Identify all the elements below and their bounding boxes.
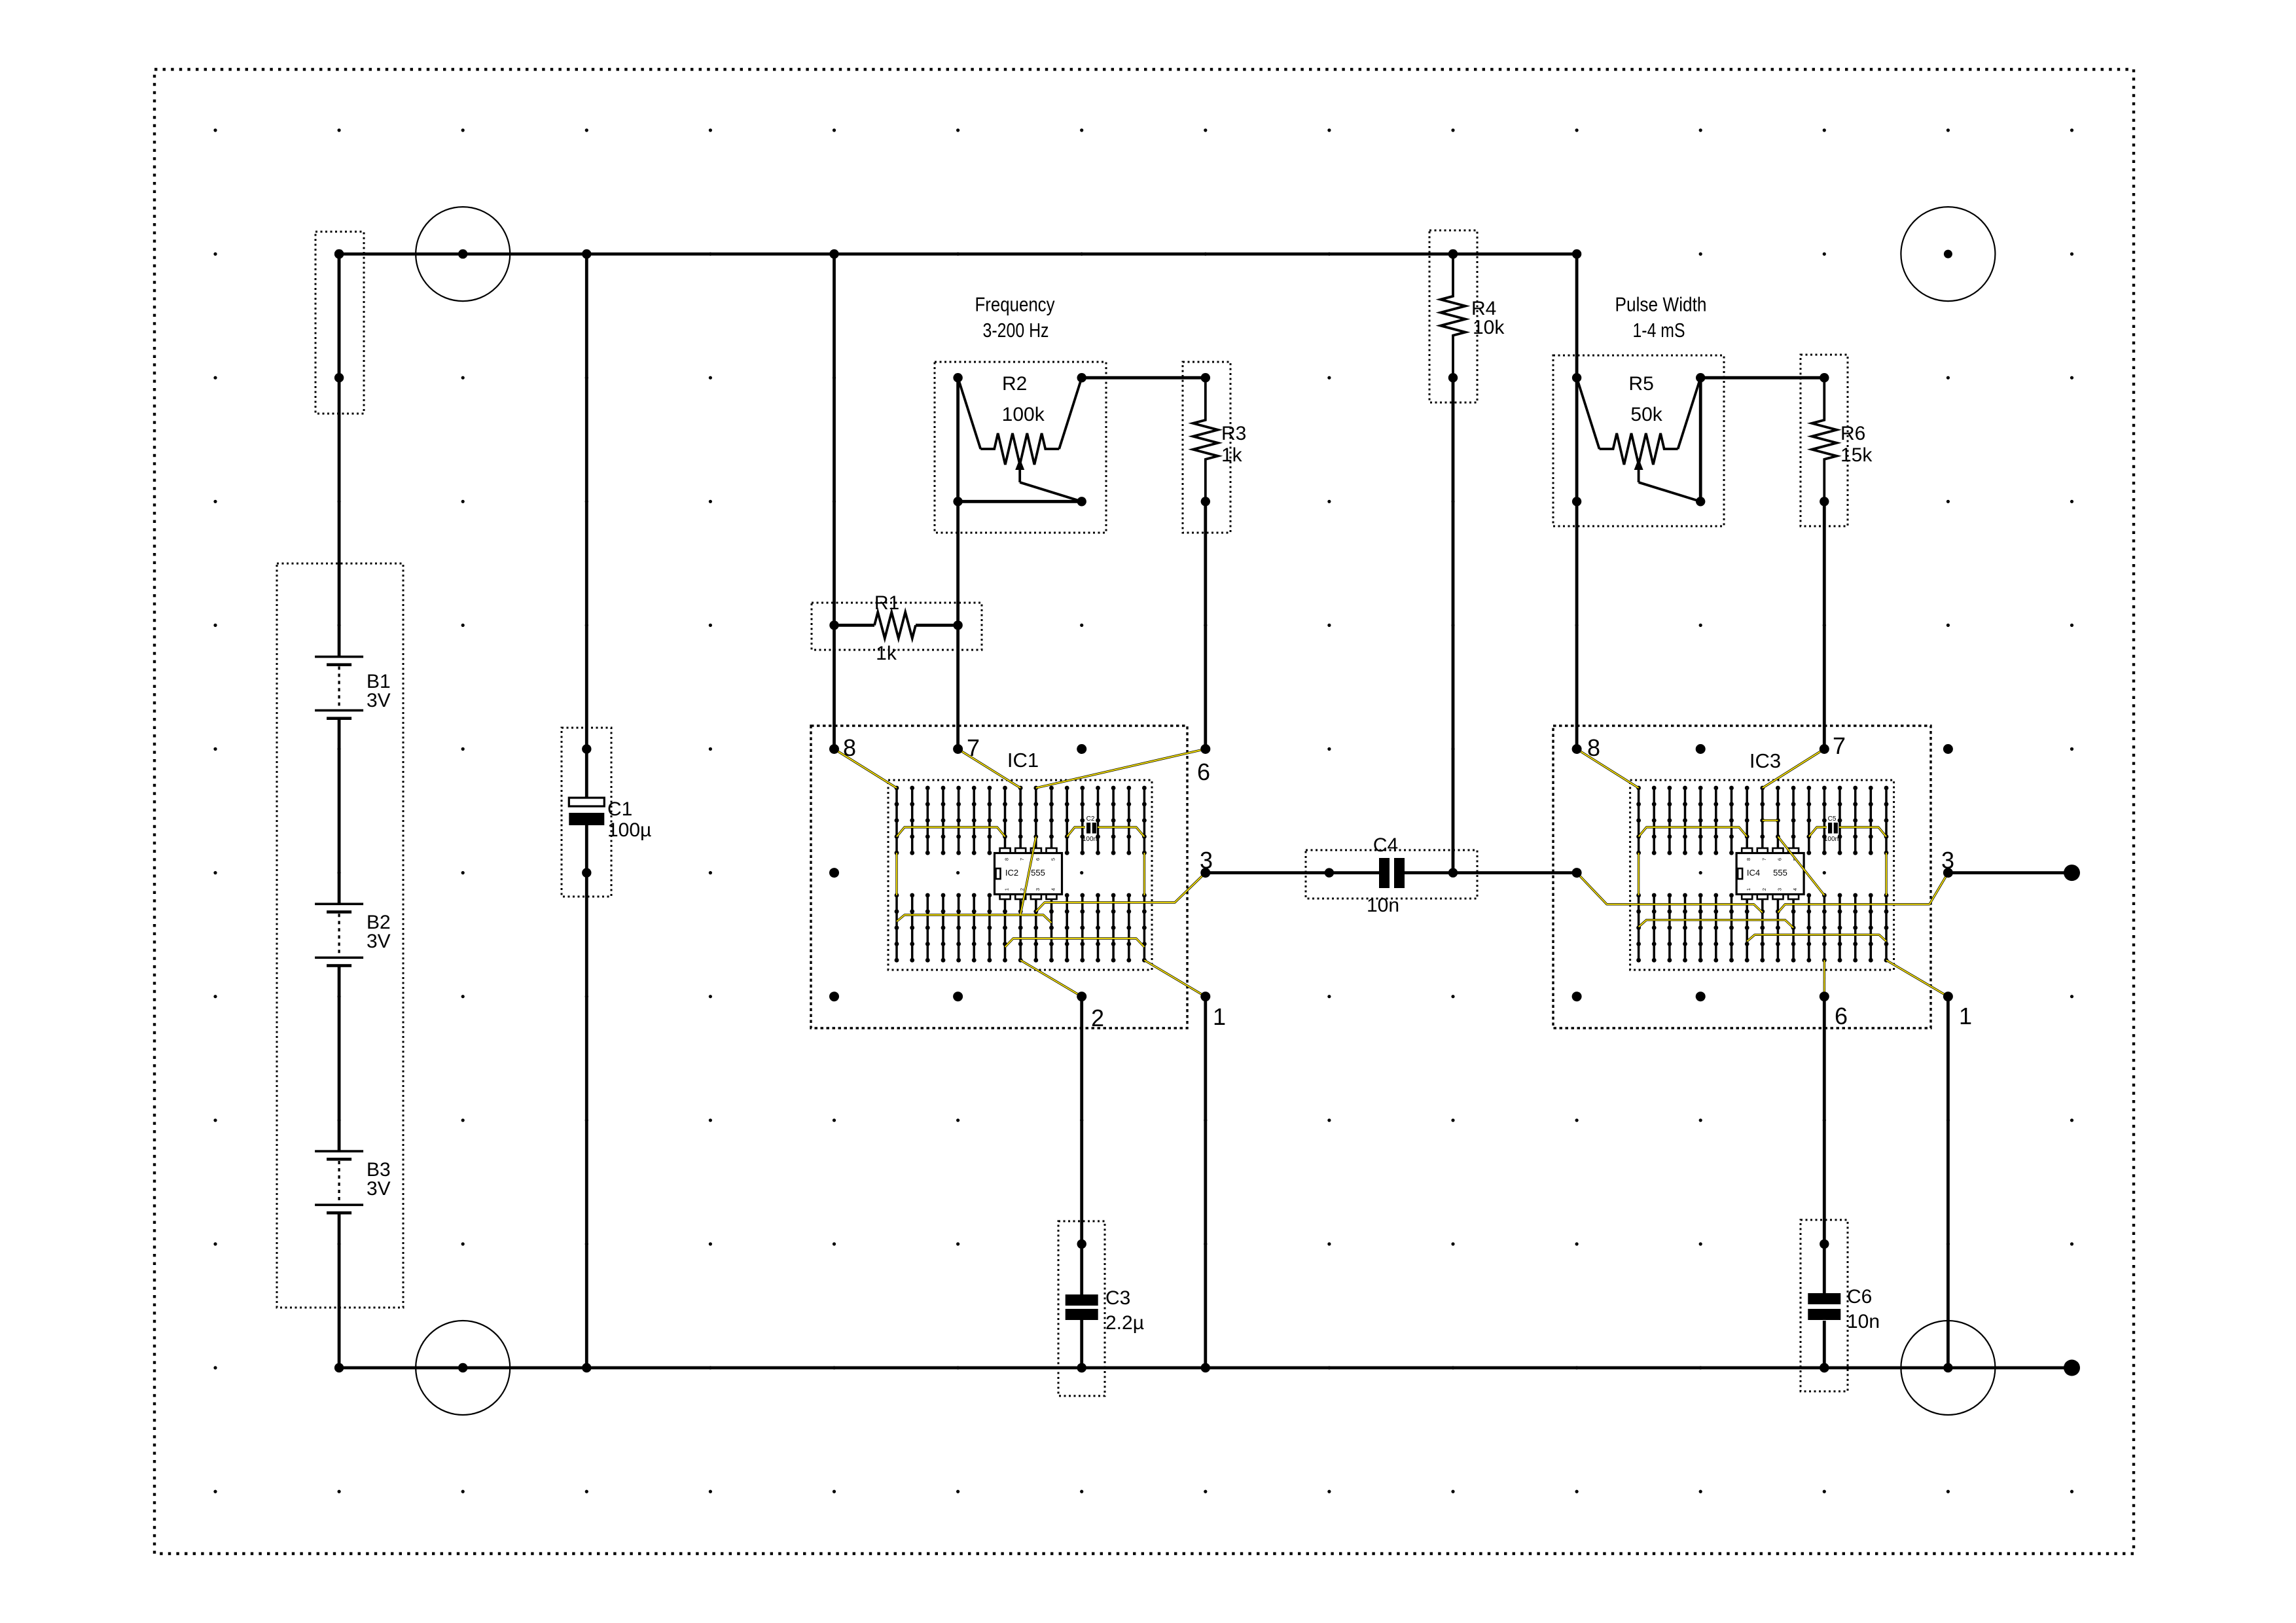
wire IC3 left bank link xyxy=(1638,853,1640,895)
battery B2 3V xyxy=(315,903,391,967)
svg-text:3V: 3V xyxy=(367,690,391,711)
svg-text:8: 8 xyxy=(843,734,856,761)
svg-text:1: 1 xyxy=(1213,1003,1226,1030)
svg-text:7: 7 xyxy=(967,734,980,761)
wire IC3 lower rail link B xyxy=(1747,935,1886,941)
svg-text:100n: 100n xyxy=(1824,836,1839,843)
drill mark bottom-left xyxy=(416,1321,510,1415)
wire R4 bottom to C4 node xyxy=(1452,378,1455,872)
wire R5 to R6 top link xyxy=(1700,376,1824,380)
svg-text:IC3: IC3 xyxy=(1749,749,1781,772)
svg-text:C2: C2 xyxy=(1086,815,1095,823)
IC1 pin 8 xyxy=(829,734,856,761)
svg-text:C4: C4 xyxy=(1373,834,1398,856)
svg-text:4: 4 xyxy=(1792,888,1798,891)
wire R1/pin8 column xyxy=(833,254,836,749)
wire C1 column bottom xyxy=(585,822,588,1368)
wire IC3 pin 6 to C6 xyxy=(1823,997,1826,1293)
svg-text:2: 2 xyxy=(1761,888,1767,891)
svg-text:C1: C1 xyxy=(607,798,632,820)
drill mark bottom-right xyxy=(1901,1321,1995,1415)
IC3 label xyxy=(1749,749,1781,772)
wire R6 bottom to IC3 pin 7 xyxy=(1823,501,1826,749)
svg-text:R5: R5 xyxy=(1628,373,1653,395)
svg-text:3: 3 xyxy=(1941,847,1954,874)
svg-text:R3: R3 xyxy=(1221,423,1246,444)
IC3 pin 3 xyxy=(1941,847,1954,878)
wire IC3 lower rail link A xyxy=(1639,920,1794,928)
svg-text:15k: 15k xyxy=(1840,444,1873,466)
IC3 pin 8 xyxy=(1572,734,1600,761)
svg-text:555: 555 xyxy=(1031,868,1045,878)
title Frequency xyxy=(975,293,1055,342)
op-amp/timer chip IC2 555 xyxy=(995,848,1062,899)
IC3 module grid nodes xyxy=(1572,744,1953,1001)
svg-text:1-4 mS: 1-4 mS xyxy=(1633,319,1685,342)
resistor R3 1k xyxy=(1183,362,1246,533)
svg-text:100n: 100n xyxy=(1083,836,1097,843)
svg-text:1: 1 xyxy=(1746,888,1751,891)
wire IC1 pin2 to breadboard xyxy=(1020,960,1082,997)
IC module IC1 bounding box xyxy=(811,726,1187,1028)
svg-text:3: 3 xyxy=(1777,888,1783,891)
svg-text:7: 7 xyxy=(1761,858,1767,861)
IC3 pin 6 xyxy=(1820,991,1848,1029)
wire IC1 pin7 to breadboard xyxy=(958,749,1021,789)
wire IC3 pin 3 to output xyxy=(1948,871,2072,874)
breadboard IC3 xyxy=(1630,780,1894,970)
wire battery column top xyxy=(338,254,341,656)
svg-text:100µ: 100µ xyxy=(607,819,651,841)
svg-text:Frequency: Frequency xyxy=(975,293,1055,316)
wire IC1 lower rail link A xyxy=(897,915,1052,923)
title Pulse Width xyxy=(1615,293,1707,342)
capacitor C1 100u xyxy=(562,728,651,897)
wire R2 to R3 top link xyxy=(1082,376,1206,380)
wire IC1 pin6 to breadboard xyxy=(1036,749,1206,789)
wire R3 bottom to IC1 pin 6 xyxy=(1204,501,1207,749)
svg-text:555: 555 xyxy=(1773,868,1787,878)
svg-text:1: 1 xyxy=(1004,888,1010,891)
IC1 pin 2 xyxy=(1077,991,1104,1031)
svg-text:C3: C3 xyxy=(1105,1287,1130,1309)
svg-text:6: 6 xyxy=(1777,858,1783,861)
wire IC3 top rail link xyxy=(1639,827,1748,836)
capacitor C4 10n xyxy=(1306,834,1477,916)
svg-text:6: 6 xyxy=(1197,758,1210,785)
svg-text:R2: R2 xyxy=(1002,373,1027,395)
node ground bus junctions xyxy=(334,1363,1953,1372)
IC module IC3 bounding box xyxy=(1553,726,1931,1028)
wire R5 right leg xyxy=(1699,378,1702,501)
wire IC3 pin8 to breadboard xyxy=(1577,749,1639,789)
svg-text:3: 3 xyxy=(1035,888,1041,891)
svg-text:8: 8 xyxy=(1004,858,1010,861)
svg-text:7: 7 xyxy=(1833,732,1846,759)
wire IC3 C5 left lead xyxy=(1809,827,1827,836)
wire IC1 pin8 to breadboard xyxy=(834,749,897,789)
wire IC1 pin 1 to ground bus xyxy=(1204,997,1207,1368)
wire B3 to ground bus xyxy=(338,1214,341,1368)
wire IC3 pin3 to breadboard xyxy=(1778,873,1948,913)
resistor R6 15k xyxy=(1801,355,1873,526)
wire IC1 pin1 to breadboard xyxy=(1144,960,1205,997)
svg-text:3-200 Hz: 3-200 Hz xyxy=(983,319,1049,342)
svg-text:6: 6 xyxy=(1835,1003,1848,1029)
wire IC3 chip crossover xyxy=(1778,836,1825,895)
wire IC3 pin 1 to ground bus xyxy=(1946,997,1950,1368)
wire IC1 top rail link xyxy=(897,827,1005,836)
svg-text:3: 3 xyxy=(1200,847,1213,874)
IC1 label xyxy=(1007,749,1039,772)
wire IC1 chip crossover xyxy=(1020,836,1036,914)
node output terminal ground xyxy=(2064,1360,2080,1376)
svg-text:Pulse Width: Pulse Width xyxy=(1615,293,1707,316)
wire R2 left leg to IC1 pin 7 xyxy=(956,378,960,749)
wire IC3 col9-col10 link xyxy=(1763,819,1778,821)
node top bus junctions xyxy=(334,249,1581,259)
svg-text:C5: C5 xyxy=(1828,815,1837,823)
svg-text:1k: 1k xyxy=(1221,444,1243,466)
wire IC1 C2 right lead xyxy=(1098,827,1144,836)
svg-text:7: 7 xyxy=(1019,858,1025,861)
capacitor C6 10n xyxy=(1801,1220,1880,1391)
IC3 pin 2 node xyxy=(1572,868,1582,878)
wire IC3 pin1 to breadboard xyxy=(1886,960,1948,997)
jumper J1 battery plus link xyxy=(315,232,364,414)
svg-text:10k: 10k xyxy=(1473,317,1505,338)
svg-text:4: 4 xyxy=(1050,888,1056,891)
wire IC3 pin2 to breadboard xyxy=(1577,873,1763,913)
wire B1-B2 link xyxy=(338,719,341,904)
svg-text:10n: 10n xyxy=(1367,895,1399,916)
svg-text:IC2: IC2 xyxy=(1005,868,1018,878)
svg-text:8: 8 xyxy=(1746,858,1751,861)
svg-text:R1: R1 xyxy=(874,592,899,614)
wire IC1 lower rail link B xyxy=(1005,938,1145,947)
svg-text:2: 2 xyxy=(1091,1005,1104,1031)
breadboard IC1 xyxy=(888,780,1152,970)
svg-text:1k: 1k xyxy=(876,643,897,664)
wire IC3 right bank link xyxy=(1885,853,1887,895)
node output terminal pulse xyxy=(2064,865,2080,881)
svg-text:2.2µ: 2.2µ xyxy=(1105,1312,1144,1334)
svg-text:6: 6 xyxy=(1035,858,1041,861)
svg-text:10n: 10n xyxy=(1847,1311,1880,1332)
IC1 pin 7 xyxy=(953,734,980,761)
IC1 module grid nodes xyxy=(829,744,1086,1001)
IC1 pin 1 xyxy=(1200,991,1226,1030)
svg-text:C6: C6 xyxy=(1847,1286,1872,1308)
wire IC1 right bank link xyxy=(1143,853,1145,895)
op-amp/timer chip IC4 555 xyxy=(1736,848,1804,899)
svg-text:50k: 50k xyxy=(1630,404,1662,425)
wire IC1 C2 left lead xyxy=(1067,827,1085,836)
potentiometer R2 100k xyxy=(935,362,1106,533)
wire C6 to ground bus xyxy=(1823,1321,1826,1368)
wire IC1 pin 2 to C3 xyxy=(1080,997,1083,1294)
wire C4 to IC3 pin 2 xyxy=(1405,871,1577,874)
resistor R1 1k xyxy=(812,592,982,664)
drill mark top-right xyxy=(1901,207,1995,301)
svg-text:3V: 3V xyxy=(367,931,391,952)
wire IC3 pin6 to breadboard xyxy=(1823,960,1825,997)
svg-text:IC4: IC4 xyxy=(1747,868,1760,878)
svg-text:1: 1 xyxy=(1959,1003,1972,1029)
svg-text:3V: 3V xyxy=(367,1178,391,1200)
wire IC3 pin7 to breadboard xyxy=(1763,749,1825,789)
capacitor C3 2.2u xyxy=(1058,1221,1144,1396)
wire IC1 pin3 to breadboard xyxy=(1036,873,1206,912)
wire B2-B3 link xyxy=(338,967,341,1151)
svg-text:IC1: IC1 xyxy=(1007,749,1039,772)
wire C1 column top xyxy=(585,254,588,798)
wire R5 left leg column xyxy=(1575,254,1579,749)
IC1 pin 6 xyxy=(1197,744,1210,785)
battery pack bounding box xyxy=(277,563,403,1308)
svg-text:100k: 100k xyxy=(1002,404,1045,425)
wire IC1 pin 3 to C4 xyxy=(1206,871,1379,874)
wire IC3 C5 right lead xyxy=(1839,827,1886,836)
battery B1 3V xyxy=(315,656,391,720)
capacitor C5 100n xyxy=(1824,815,1839,843)
potentiometer R5 50k xyxy=(1553,355,1724,526)
battery B3 3V xyxy=(315,1150,391,1214)
capacitor C2 100n xyxy=(1083,815,1097,843)
resistor R4 10k xyxy=(1429,230,1505,402)
wire ground bottom bus xyxy=(339,1366,2072,1370)
IC1 pin 3 xyxy=(1200,847,1213,878)
wire C3 to ground bus xyxy=(1080,1320,1083,1368)
svg-text:5: 5 xyxy=(1050,858,1056,861)
wire IC1 left bank link xyxy=(895,853,897,895)
drill mark top-left xyxy=(416,207,510,301)
svg-text:R6: R6 xyxy=(1840,423,1865,444)
svg-text:8: 8 xyxy=(1587,734,1600,761)
wire V+ top bus xyxy=(339,253,1577,256)
IC3 pin 1 xyxy=(1943,991,1972,1029)
IC3 pin 7 xyxy=(1820,732,1846,759)
